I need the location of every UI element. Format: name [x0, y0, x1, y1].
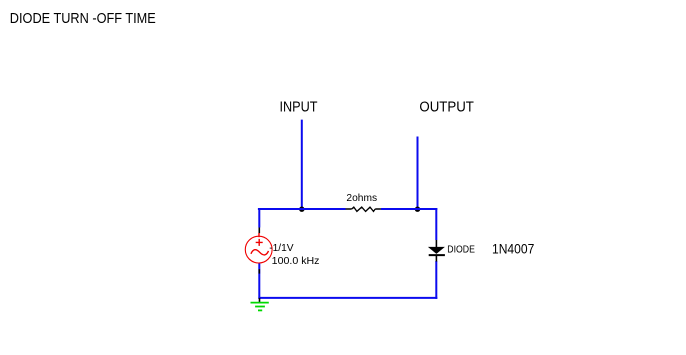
- wire top left segment: [258, 208, 346, 210]
- wire bottom horizontal: [258, 297, 437, 299]
- diode D1 cathode lead: [435, 256, 437, 262]
- svg-text:1N4007: 1N4007: [492, 240, 534, 256]
- diode D1 anode lead: [435, 240, 437, 248]
- wire OUTPUT vertical: [417, 137, 419, 210]
- resistor R1 leads: [346, 208, 381, 210]
- pin lead source top (black): [258, 228, 260, 234]
- svg-text:INPUT: INPUT: [280, 98, 318, 115]
- wire INPUT vertical: [301, 120, 303, 209]
- pin lead source bottom (black): [258, 269, 260, 273]
- ground bar 3: [258, 309, 262, 311]
- diode D1 cathode bar: [429, 254, 445, 256]
- diode D1 triangle: [428, 247, 445, 254]
- wire right vertical upper: [435, 208, 437, 240]
- svg-text:100.0 kHz: 100.0 kHz: [272, 256, 320, 267]
- svg-text:OUTPUT: OUTPUT: [419, 98, 474, 115]
- source V1 plus sign: [256, 239, 263, 246]
- ground stub lead: [259, 298, 261, 303]
- source V1 top terminal tick (red): [258, 233, 260, 237]
- wire right vertical lower: [435, 261, 437, 299]
- svg-text:DIODE: DIODE: [447, 244, 475, 255]
- resistor R1 zigzag body: [352, 207, 376, 211]
- source V1 sine wave: [251, 250, 269, 255]
- wire top right segment: [381, 208, 437, 210]
- source V1 circle body: [245, 236, 272, 263]
- wire left vertical lower: [258, 263, 260, 299]
- ground bar 2: [255, 306, 265, 308]
- junction dot node INPUT: [299, 207, 305, 212]
- ground bar 1: [251, 302, 269, 304]
- svg-text:2ohms: 2ohms: [346, 193, 377, 204]
- junction dot node OUTPUT: [415, 207, 421, 212]
- wire left vertical upper: [258, 208, 260, 228]
- svg-text:-1/1V: -1/1V: [269, 243, 293, 254]
- svg-text:DIODE TURN -OFF TIME: DIODE TURN -OFF TIME: [10, 11, 156, 27]
